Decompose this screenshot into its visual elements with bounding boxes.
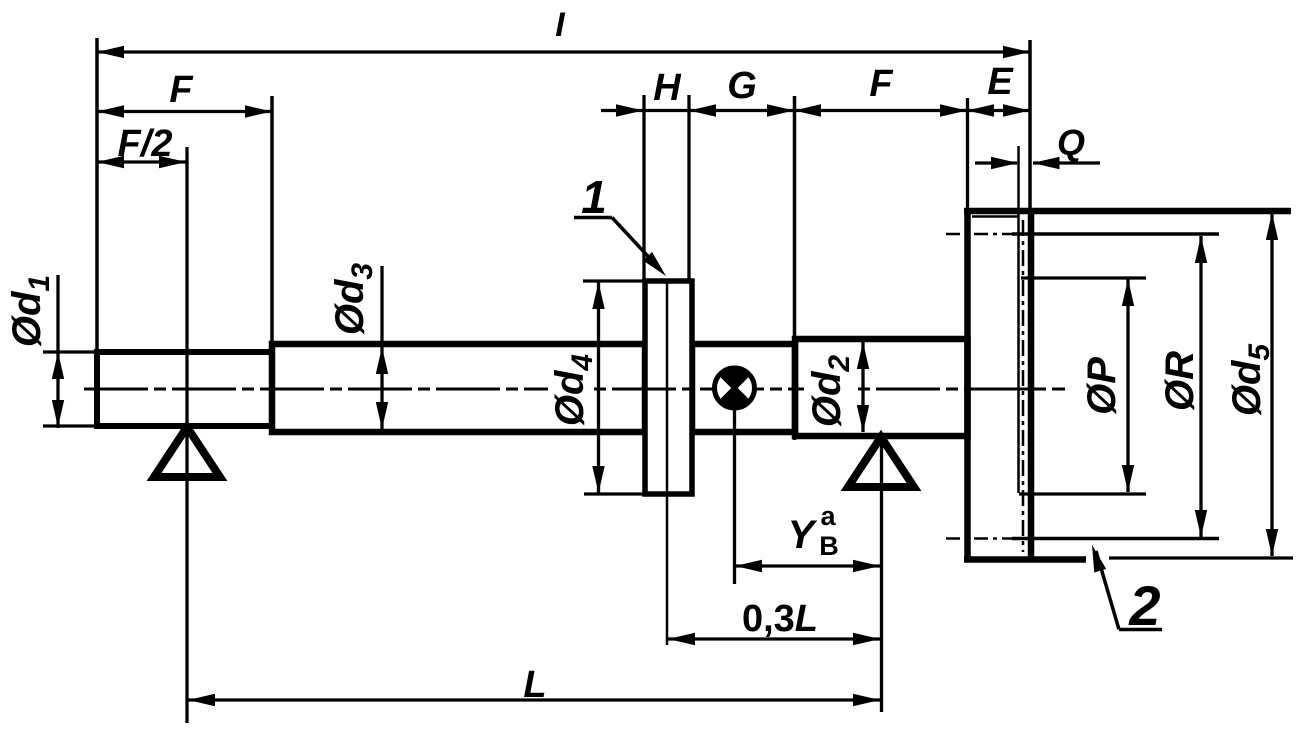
label Od1 (rotated) xyxy=(5,275,56,347)
shaft section d2 xyxy=(795,339,968,436)
dimension line OP xyxy=(1126,279,1129,492)
dimension line L xyxy=(188,698,880,701)
flange right face xyxy=(1028,208,1035,563)
extension line left shaft end xyxy=(95,38,99,352)
OR bottom extension dash-dot part xyxy=(946,537,1014,540)
label OR (rotated) xyxy=(1158,351,1202,411)
extension line H left (ring left) xyxy=(642,95,645,281)
support B triangle xyxy=(848,437,914,487)
Od1 top extension xyxy=(43,350,97,353)
flange left face xyxy=(964,208,971,563)
OR top extension dash-dot part xyxy=(946,233,1014,236)
extension line at flange left face xyxy=(966,98,969,208)
leader for label 2 xyxy=(1119,628,1162,632)
shaft centerline xyxy=(84,388,1065,391)
force application point symbol (circle with filled quadrants) xyxy=(715,368,755,408)
OR top extension solid part xyxy=(1012,232,1219,236)
dimension line I xyxy=(97,50,1030,53)
dimension line Q xyxy=(975,161,1017,164)
Od4 top extension xyxy=(583,279,645,282)
Od5 bottom extension xyxy=(1109,556,1293,559)
support A triangle xyxy=(154,427,220,477)
OP bottom extension xyxy=(1019,492,1146,495)
Od4 bottom extension xyxy=(584,492,645,495)
Od1 bottom extension xyxy=(43,424,97,427)
dimension line F/2 xyxy=(97,160,186,163)
support B extension line xyxy=(880,437,883,712)
OP top extension xyxy=(1021,276,1146,279)
ring center extension line (0,3L reference) xyxy=(666,281,669,645)
label Od2 (rotated) xyxy=(804,351,852,431)
dimension line H G F E xyxy=(601,109,1030,112)
dimension line Od2 xyxy=(861,342,864,432)
flange top edge (also Od5 top extension) xyxy=(964,208,1291,215)
svg-text:2: 2 xyxy=(1128,574,1160,637)
leader for label 1 xyxy=(574,216,612,220)
dimension line F (left) xyxy=(97,110,272,113)
svg-text:F: F xyxy=(169,69,194,111)
extension line at G/F step xyxy=(793,96,797,440)
dimension line 0,3L xyxy=(668,637,880,640)
svg-text:ØR: ØR xyxy=(1158,351,1202,411)
dimension line OR xyxy=(1199,236,1202,537)
svg-text:L: L xyxy=(523,664,546,706)
dimension line Y_B_a xyxy=(735,564,880,567)
shaft section between ring and step xyxy=(692,344,795,432)
label Od5 (rotated) xyxy=(1225,343,1276,417)
svg-text:1: 1 xyxy=(581,171,607,223)
extension line at d1/d3 step xyxy=(270,96,274,348)
svg-text:B: B xyxy=(819,531,839,561)
OR bottom extension solid part xyxy=(1012,537,1219,541)
svg-text:F/2: F/2 xyxy=(118,123,173,165)
flange inner thin line (Q reference) xyxy=(1017,146,1020,493)
extension line at flange right face (I dim) xyxy=(1028,40,1032,208)
ring element 1 on shaft xyxy=(645,281,692,494)
dimension line Od1 xyxy=(56,275,59,428)
support A extension line xyxy=(185,147,188,723)
shaft section d3 xyxy=(272,344,645,432)
svg-text:a: a xyxy=(820,501,836,531)
svg-text:E: E xyxy=(987,61,1014,103)
svg-text:I: I xyxy=(555,6,566,44)
svg-text:Y: Y xyxy=(788,513,818,557)
shaft section d1 xyxy=(97,352,272,426)
dimension line Od5 xyxy=(1270,213,1273,556)
svg-text:0,3L: 0,3L xyxy=(742,598,818,640)
label Od3 (rotated) xyxy=(328,263,379,336)
svg-text:F: F xyxy=(869,63,894,105)
svg-text:G: G xyxy=(727,65,757,107)
flange dash-dot vertical centerline xyxy=(1022,220,1025,552)
svg-text:ØP: ØP xyxy=(1080,357,1124,415)
svg-text:Q: Q xyxy=(1057,122,1085,163)
label Od4 (rotated) xyxy=(548,352,594,428)
label OP (rotated) xyxy=(1080,357,1124,415)
extension line H right (ring right) xyxy=(687,95,690,281)
dimension line Od3 xyxy=(380,266,383,429)
flange bottom edge xyxy=(964,556,1086,563)
flange face recess line xyxy=(972,215,1018,218)
dimension line Od4 xyxy=(597,281,600,494)
extension line below force point xyxy=(733,408,736,584)
svg-text:H: H xyxy=(653,67,682,109)
